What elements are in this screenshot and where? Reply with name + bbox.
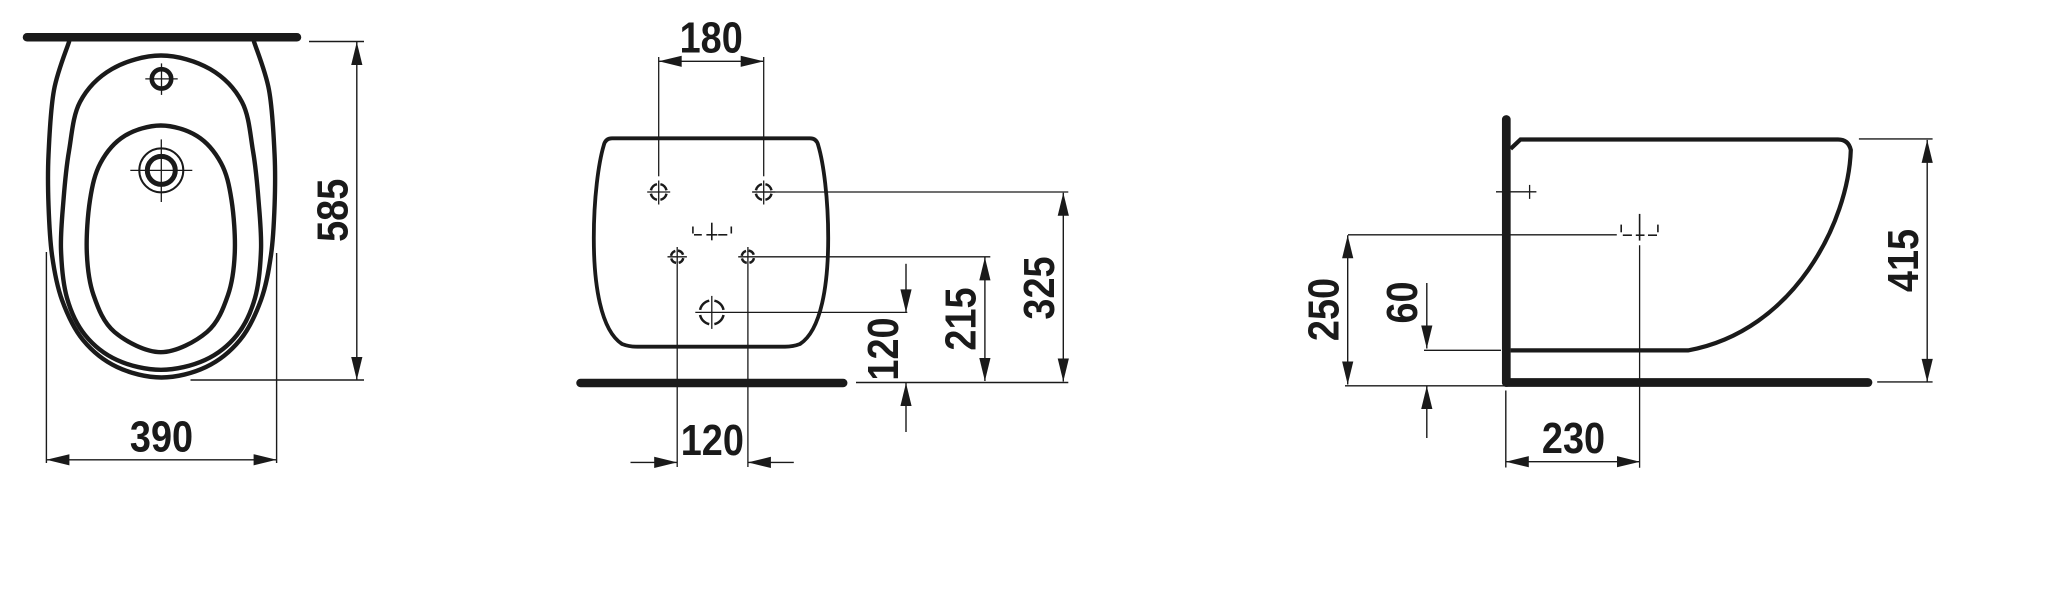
svg-text:325: 325 <box>1014 256 1063 319</box>
svg-text:120: 120 <box>681 416 744 465</box>
svg-text:120: 120 <box>859 317 908 380</box>
svg-text:585: 585 <box>308 179 357 242</box>
svg-text:215: 215 <box>936 287 985 350</box>
svg-text:390: 390 <box>130 412 193 461</box>
svg-text:230: 230 <box>1542 414 1605 463</box>
svg-text:60: 60 <box>1378 281 1427 323</box>
svg-text:415: 415 <box>1879 229 1928 292</box>
svg-text:250: 250 <box>1299 278 1348 341</box>
svg-text:180: 180 <box>680 13 743 62</box>
